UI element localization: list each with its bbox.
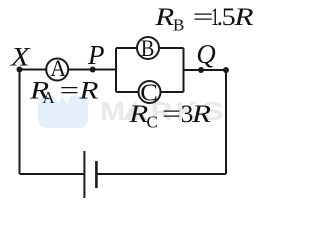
svg-text:=: = — [60, 77, 80, 104]
svg-text:B: B — [173, 15, 184, 34]
svg-text:Q: Q — [196, 39, 216, 69]
svg-text:=: = — [162, 101, 181, 128]
svg-text:R: R — [78, 77, 98, 104]
svg-text:A: A — [42, 88, 55, 107]
svg-text:M: M — [100, 96, 125, 126]
svg-text:R: R — [191, 101, 211, 128]
svg-text:R: R — [154, 4, 174, 31]
svg-text:X: X — [10, 43, 31, 72]
svg-text:R: R — [128, 101, 148, 128]
svg-text:5: 5 — [222, 4, 236, 31]
svg-text:C: C — [147, 112, 158, 131]
svg-text:R: R — [233, 4, 253, 31]
svg-text:B: B — [141, 36, 155, 61]
svg-text:P: P — [87, 40, 105, 70]
